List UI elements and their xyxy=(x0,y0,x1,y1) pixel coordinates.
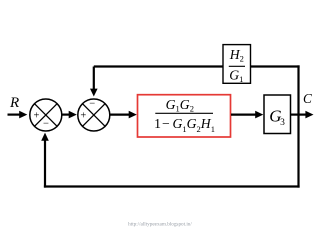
svg-text:+: + xyxy=(33,111,39,122)
summing junction S2 xyxy=(78,99,110,131)
block G (red): G1G2 / (1 - G1G2H1) xyxy=(138,95,231,137)
wire S1 to S2 xyxy=(62,113,70,115)
wire takeoff vertical xyxy=(297,65,299,187)
svg-text:http://alltypeexam.blogspot.in: http://alltypeexam.blogspot.in/ xyxy=(128,222,192,228)
wire bottom feedback horizontal xyxy=(44,185,300,187)
wire top feedback horizontal xyxy=(94,65,300,67)
svg-text:C: C xyxy=(303,91,312,106)
wire bottom-left vertical into sum1 xyxy=(44,141,46,188)
wire S2 to block G xyxy=(110,113,129,115)
svg-text:−: − xyxy=(43,119,49,130)
wire output C xyxy=(291,113,307,115)
wire top feedback down into sum2 xyxy=(93,67,95,90)
svg-text:G1G2: G1G2 xyxy=(166,97,194,114)
wire block G to G3 xyxy=(231,113,256,115)
block G3 xyxy=(264,95,291,134)
svg-text:−: − xyxy=(89,99,95,110)
svg-text:R: R xyxy=(9,95,19,111)
wire input R xyxy=(8,113,21,115)
svg-text:+: + xyxy=(80,111,86,122)
block H2/G1 on top feedback xyxy=(223,45,251,84)
summing junction S1 xyxy=(30,99,62,131)
